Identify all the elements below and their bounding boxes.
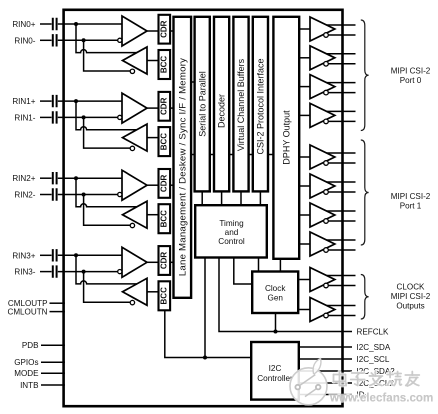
wire CMLOUTN stub	[50, 311, 65, 313]
capacitor C5 (RIN2+ AC coupling)	[53, 172, 57, 184]
wire RIN2+ input	[40, 177, 52, 179]
op-amp BCC driver ch1	[123, 124, 148, 151]
op-amp output driver 8	[310, 232, 335, 256]
node junction REFCLK	[274, 330, 278, 334]
svg-text:Lane Management / Deskew / Syn: Lane Management / Deskew / Sync I/F / Me…	[178, 58, 189, 276]
pin bubble receiver ch1 inverting input	[118, 115, 122, 119]
wire DPHY/clock to output driver 2	[299, 57, 310, 59]
capacitor C8 (RIN3- AC coupling)	[53, 265, 57, 277]
pin bubble driver ch3 inverting output	[130, 300, 134, 304]
capacitor C7 (RIN3+ AC coupling)	[53, 249, 57, 261]
block DPHY output	[273, 17, 299, 259]
BCC block ch3	[159, 281, 171, 310]
op-amp output driver 2	[310, 46, 335, 70]
wire RIN3- to receiver	[58, 271, 120, 273]
wire receiver ch1 output to CDR	[147, 107, 158, 109]
wire lane mgmt to serial-to-parallel (lower)	[191, 154, 195, 156]
capacitor C1 (RIN0+ AC coupling)	[53, 18, 57, 30]
svg-text:RIN2+: RIN2+	[12, 174, 35, 183]
wire BCC ch3 to I2C controller	[165, 310, 251, 357]
svg-text:Virtual Channel Buffers: Virtual Channel Buffers	[236, 58, 246, 151]
wire driver 6 complement output stub	[328, 191, 355, 193]
wire RIN2- input	[40, 194, 52, 196]
wire timing control to I2C controller	[204, 258, 206, 358]
wire clock gen to REFCLK node	[275, 313, 277, 332]
wire I2C controller output	[299, 346, 352, 348]
op-amp output driver 9	[310, 268, 335, 292]
BCC block ch1	[159, 127, 171, 156]
brace MIPI CSI-2 port 1 group	[361, 140, 369, 245]
wire DPHY/clock to output driver 7	[299, 214, 310, 216]
wire timing control to REFCLK	[219, 258, 352, 332]
wire driver ch3 inverting output to RIN3-	[84, 272, 131, 303]
wire CDR ch2 to lane management	[170, 184, 174, 186]
wire RIN3- input	[40, 271, 52, 273]
node RIN2- tap	[82, 193, 86, 197]
wire virtual channel buffers to CSI-2 protocol interface	[249, 154, 253, 156]
pin bubble receiver ch3 inverting input	[118, 270, 122, 274]
op-amp output driver 5	[310, 145, 335, 169]
op-amp BCC driver ch3	[123, 278, 148, 305]
svg-text:Controller: Controller	[257, 374, 293, 383]
pin bubble driver 6 complement output	[324, 190, 329, 195]
CDR block ch2	[159, 169, 171, 198]
wire INTB stub	[41, 384, 65, 386]
pin bubble driver ch1 inverting output	[130, 146, 134, 150]
pin bubble driver 1 complement output	[324, 33, 329, 38]
wire DPHY/clock to output driver 10	[299, 309, 310, 311]
svg-text:I2C_SCL: I2C_SCL	[357, 355, 390, 364]
wire CDR ch3 to lane management	[170, 261, 174, 263]
wire DPHY/clock to output driver 5	[299, 156, 310, 158]
wire DPHY/clock to output driver 8	[299, 243, 310, 245]
svg-text:RIN0-: RIN0-	[14, 36, 35, 45]
wire driver ch1 inverting output to RIN1-	[84, 117, 131, 148]
wire receiver ch3 output to CDR	[147, 261, 158, 263]
wire RIN0- to receiver	[58, 39, 120, 41]
wire CDR ch0 to lane management	[170, 30, 174, 32]
wire DPHY/clock to output driver 1	[299, 28, 310, 30]
svg-text:BCC: BCC	[160, 287, 169, 305]
svg-text:RIN1+: RIN1+	[12, 97, 35, 106]
wire driver 10 complement output stub	[328, 315, 355, 317]
wire MODE stub	[41, 372, 65, 374]
node RIN0- tap	[82, 38, 86, 42]
wire driver ch2 inverting output to RIN2-	[84, 195, 131, 226]
wire lane mgmt to serial-to-parallel (upper)	[191, 81, 195, 83]
svg-text:REFCLK: REFCLK	[357, 328, 390, 337]
svg-text:Gen: Gen	[267, 294, 283, 303]
pin bubble receiver ch2 inverting input	[118, 192, 122, 196]
wire driver 2 true output stub	[327, 53, 356, 55]
svg-text:CDR: CDR	[160, 252, 169, 270]
node RIN3+ tap	[74, 253, 78, 257]
wire CMLOUTP stub	[50, 302, 65, 304]
wire RIN1+ to receiver	[58, 100, 122, 102]
wire RIN1- input	[40, 116, 52, 118]
wire DPHY output to clock gen	[279, 259, 281, 271]
block virtual channel buffers	[233, 17, 248, 192]
wire I2C controller output	[299, 370, 352, 372]
node RIN1+ tap	[74, 99, 78, 103]
wire block to timing control	[240, 191, 242, 204]
svg-text:RIN2-: RIN2-	[14, 191, 35, 200]
svg-text:BCC: BCC	[160, 133, 169, 151]
wire driver 1 complement output stub	[328, 34, 355, 36]
wire driver 9 true output stub	[327, 275, 356, 277]
wire I2C controller output	[299, 394, 352, 396]
svg-text:CDR: CDR	[160, 175, 169, 193]
wire driver 2 complement output stub	[328, 63, 355, 65]
wire driver 8 true output stub	[327, 239, 356, 241]
wire driver ch1 non-inverting output to RIN1+ (with hopover)	[76, 101, 137, 130]
op-amp BCC driver ch2	[123, 201, 148, 228]
svg-text:I2C_SDA: I2C_SDA	[357, 343, 391, 352]
svg-text:CLOCK: CLOCK	[397, 283, 425, 292]
svg-text:MODE: MODE	[14, 369, 39, 378]
svg-text:and: and	[225, 228, 239, 237]
svg-text:GPIOs: GPIOs	[14, 358, 38, 367]
block timing and control	[195, 205, 267, 257]
op-amp receiver ch2	[122, 170, 147, 200]
svg-text:RIN3-: RIN3-	[14, 268, 35, 277]
capacitor C4 (RIN1- AC coupling)	[53, 111, 57, 123]
op-amp output driver 7	[310, 203, 335, 227]
svg-text:CDR: CDR	[160, 97, 169, 115]
svg-text:BCC: BCC	[160, 56, 169, 74]
wire I2C controller output	[299, 382, 352, 384]
wire driver 4 complement output stub	[328, 120, 355, 122]
pin bubble driver 3 complement output	[324, 90, 329, 95]
pin bubble driver 2 complement output	[324, 62, 329, 67]
brace clock outputs group	[361, 275, 369, 320]
svg-text:RIN1-: RIN1-	[14, 113, 35, 122]
wire CSI-2 protocol interface to DPHY output	[268, 154, 273, 156]
wire BCC block to driver ch0	[147, 60, 159, 62]
op-amp output driver 10	[310, 298, 335, 322]
pin bubble driver 5 complement output	[324, 161, 329, 166]
svg-text:DPHY Output: DPHY Output	[282, 110, 292, 165]
node RIN1- tap	[82, 115, 86, 119]
block decoder	[214, 17, 229, 192]
wire RIN3+ to receiver	[58, 254, 122, 256]
op-amp output driver 1	[310, 17, 335, 41]
op-amp output driver 6	[310, 174, 335, 198]
svg-text:CDR: CDR	[160, 20, 169, 38]
wire driver 1 true output stub	[327, 24, 356, 26]
wire driver 4 true output stub	[327, 110, 356, 112]
wire driver ch0 non-inverting output to RIN0+ (with hopover)	[76, 24, 137, 53]
wire driver 7 complement output stub	[328, 220, 355, 222]
capacitor C2 (RIN0- AC coupling)	[53, 34, 57, 46]
svg-text:www.elecfans.com: www.elecfans.com	[329, 392, 433, 405]
op-amp receiver ch1	[122, 93, 147, 123]
wire DPHY/clock to output driver 9	[299, 279, 310, 281]
svg-text:Timing: Timing	[219, 219, 244, 228]
wire timing control to clock gen (left)	[234, 258, 252, 285]
wire BCC block to driver ch2	[147, 214, 159, 216]
node label MIPI CSI-2 Port 1	[391, 192, 431, 211]
wire driver 5 true output stub	[327, 152, 356, 154]
wire BCC block to driver ch1	[147, 137, 159, 139]
svg-text:Decoder: Decoder	[217, 94, 227, 128]
wire driver 6 true output stub	[327, 181, 356, 183]
pin bubble driver ch2 inverting output	[130, 223, 134, 227]
pin bubble driver 4 complement output	[324, 119, 329, 124]
wire RIN2+ to receiver	[58, 177, 122, 179]
node junction timing/BCC/I2C	[203, 356, 207, 360]
pin bubble driver ch0 inverting output	[130, 69, 134, 73]
wire PDB stub	[41, 344, 65, 346]
svg-text:MIPI CSI-2: MIPI CSI-2	[391, 292, 431, 301]
wire CDR ch1 to lane management	[170, 107, 174, 109]
svg-text:BCC: BCC	[160, 210, 169, 228]
svg-text:RIN3+: RIN3+	[12, 251, 35, 260]
block I2C controller	[251, 342, 299, 400]
wire block to timing control	[221, 191, 223, 204]
svg-text:I2C: I2C	[269, 364, 282, 373]
op-amp receiver ch0	[122, 16, 147, 46]
wire driver 5 complement output stub	[328, 162, 355, 164]
pin bubble driver 7 complement output	[324, 219, 329, 224]
wire driver 9 complement output stub	[328, 285, 355, 287]
decorative watermark (not labelled further)	[290, 359, 327, 405]
wire DPHY/clock to output driver 4	[299, 114, 310, 116]
svg-text:Outputs: Outputs	[396, 302, 424, 311]
pin bubble driver 8 complement output	[324, 248, 329, 253]
wire receiver ch0 output to CDR	[147, 30, 158, 32]
node RIN3- tap	[82, 270, 86, 274]
pin bubble driver 10 complement output	[324, 313, 329, 318]
op-amp output driver 3	[310, 75, 335, 99]
wire RIN1+ input	[40, 100, 52, 102]
chip outline box U1	[64, 10, 343, 406]
CDR block ch1	[159, 92, 171, 121]
block clock gen	[252, 272, 298, 314]
node label CLOCK MIPI CSI-2 Outputs	[391, 283, 431, 311]
wire DPHY/clock to output driver 6	[299, 185, 310, 187]
op-amp receiver ch3	[122, 247, 147, 277]
wire DPHY/clock to output driver 3	[299, 86, 310, 88]
wire RIN0- input	[40, 39, 52, 41]
wire receiver ch2 output to CDR	[147, 184, 158, 186]
pin bubble driver 9 complement output	[324, 283, 329, 288]
svg-text:PDB: PDB	[22, 341, 39, 350]
block CSI-2 protocol interface	[253, 17, 268, 192]
pin bubble receiver ch0 inverting input	[118, 38, 122, 42]
wire GPIOs stub	[41, 361, 65, 363]
wire RIN3+ input	[40, 254, 52, 256]
op-amp BCC driver ch0	[123, 47, 148, 74]
svg-text:CMLOUTN: CMLOUTN	[7, 308, 47, 317]
capacitor C6 (RIN2- AC coupling)	[53, 188, 57, 200]
node RIN2+ tap	[74, 176, 78, 180]
block serial to parallel	[195, 17, 210, 192]
wire timing control to clock gen (top)	[258, 258, 260, 271]
node RIN0+ tap	[74, 22, 78, 26]
svg-text:Serial to Parallel: Serial to Parallel	[197, 71, 207, 137]
wire block to timing control	[259, 191, 261, 204]
CDR block ch3	[159, 246, 171, 275]
wire driver 7 true output stub	[327, 210, 356, 212]
wire block to timing control	[201, 191, 203, 204]
svg-text:Port 1: Port 1	[400, 202, 422, 211]
svg-text:Clock: Clock	[265, 284, 286, 293]
wire BCC block to driver ch3	[147, 291, 159, 293]
BCC block ch0	[159, 50, 171, 79]
svg-text:Control: Control	[218, 237, 245, 246]
svg-text:RIN0+: RIN0+	[12, 20, 35, 29]
wire RIN1- to receiver	[58, 116, 120, 118]
svg-text:Port 0: Port 0	[400, 76, 422, 85]
brace MIPI CSI-2 port 0 group	[361, 20, 369, 131]
svg-text:INTB: INTB	[20, 381, 38, 390]
wire driver 10 true output stub	[327, 305, 356, 307]
block lane management / deskew / sync / memory	[174, 17, 192, 298]
BCC block ch2	[159, 204, 171, 233]
node label MIPI CSI-2 Port 0	[391, 67, 431, 86]
wire driver 3 complement output stub	[328, 92, 355, 94]
wire I2C controller output	[299, 358, 352, 360]
wire decoder to virtual channel buffers	[229, 154, 233, 156]
svg-text:MIPI CSI-2: MIPI CSI-2	[391, 192, 431, 201]
op-amp output driver 4	[310, 103, 335, 127]
capacitor C3 (RIN1+ AC coupling)	[53, 95, 57, 107]
wire RIN0+ to receiver	[58, 23, 122, 25]
wire serial-to-parallel to decoder	[210, 154, 214, 156]
svg-text:MIPI CSI-2: MIPI CSI-2	[391, 67, 431, 76]
wire RIN2- to receiver	[58, 194, 120, 196]
wire driver ch0 inverting output to RIN0-	[84, 40, 131, 71]
wire driver ch3 non-inverting output to RIN3+ (with hopover)	[76, 255, 137, 284]
CDR block ch0	[159, 15, 171, 44]
wire driver 8 complement output stub	[328, 249, 355, 251]
wire driver 3 true output stub	[327, 82, 356, 84]
wire driver ch2 non-inverting output to RIN2+ (with hopover)	[76, 178, 137, 207]
svg-text:CSI-2 Protocol Interface: CSI-2 Protocol Interface	[256, 58, 266, 154]
wire RIN0+ input	[40, 23, 52, 25]
